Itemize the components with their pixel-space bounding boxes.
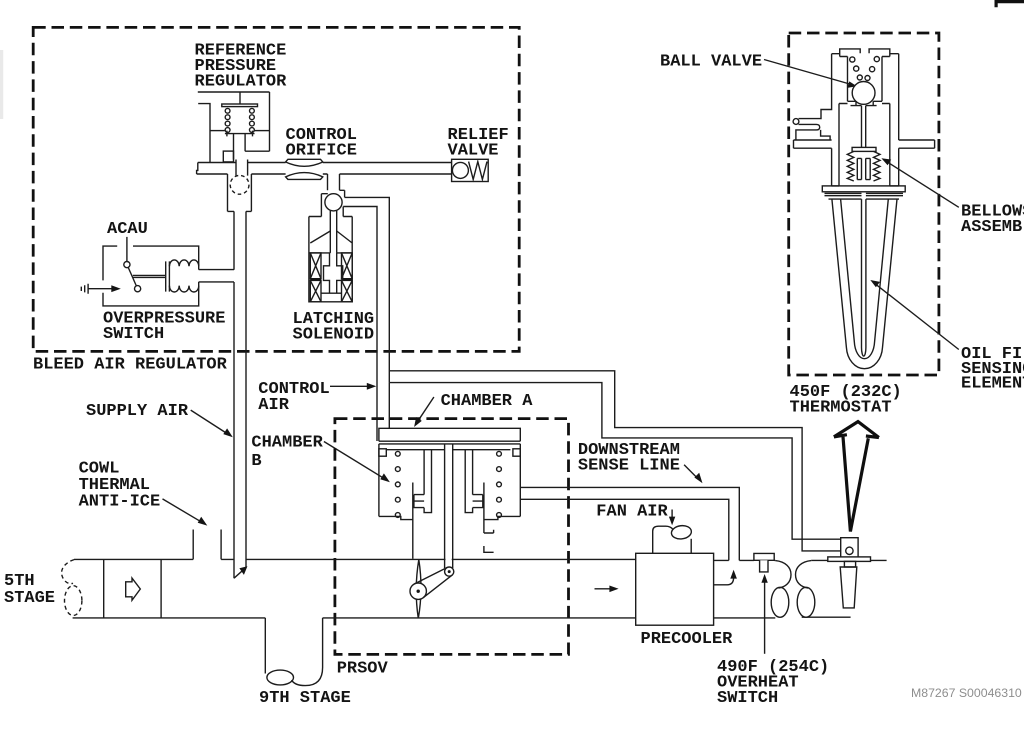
supply tube flow arrowhead <box>239 566 247 575</box>
right chamber bottom with step <box>484 516 520 519</box>
9th stage branch right wall with curve <box>292 618 323 686</box>
duct flow arrow before precooler <box>595 588 612 590</box>
nub lower lip <box>796 124 820 140</box>
supply air arrowhead <box>223 428 233 437</box>
pipe left end cap <box>197 163 198 175</box>
bellows left zigzag <box>847 151 854 181</box>
svg-text:ASSEMBLY: ASSEMBLY <box>961 218 1024 237</box>
overheat switch stem <box>760 560 768 572</box>
supply air leader <box>191 410 227 433</box>
chamber B top-left notch <box>379 449 386 456</box>
control air leader wire <box>330 385 369 387</box>
solenoid cup right wall lower <box>342 207 344 217</box>
solenoid plunger bottom bar <box>321 292 342 294</box>
chamber interior top line right <box>453 449 511 451</box>
duct bottom line end segment <box>802 616 851 618</box>
regulator narrow stem through pipe <box>236 160 248 176</box>
collar main bar <box>822 186 905 192</box>
wire: downstream sense line upper <box>520 487 739 560</box>
9th stage flex ellipse <box>267 670 294 685</box>
solenoid plunger cross outline <box>324 253 343 293</box>
flapper link small pivot <box>445 567 454 576</box>
upper bellows scallops <box>169 260 198 266</box>
ball bearings dots <box>850 57 880 81</box>
bellows plate double line <box>166 261 170 291</box>
left actuator rod <box>412 483 414 559</box>
housing bottom ties <box>832 185 899 187</box>
right poppet retainer bracket <box>473 495 483 508</box>
duct station vertical left <box>103 559 105 618</box>
anti-ice leader <box>163 499 201 522</box>
relief valve spring zigzag <box>469 162 487 180</box>
oil element arrowhead <box>870 280 880 287</box>
regulator body left wall <box>198 104 210 163</box>
flapper blade in duct <box>416 560 421 619</box>
switch pivot circle <box>124 262 130 268</box>
sense line leader <box>684 465 697 478</box>
svg-text:ELEMENT: ELEMENT <box>961 374 1024 393</box>
precooler box <box>636 553 714 625</box>
center rod double line <box>862 199 866 347</box>
svg-text:SWITCH: SWITCH <box>717 689 778 708</box>
svg-text:STAGE: STAGE <box>4 589 55 608</box>
main duct bottom line <box>73 617 636 619</box>
9th stage branch left wall <box>264 618 266 674</box>
solenoid coil X-box upper right <box>342 253 353 279</box>
anti-ice branch stubs <box>193 530 221 560</box>
thermostat mount circle <box>846 547 853 554</box>
solenoid ball cup shoulders <box>321 190 344 216</box>
flex joint 2 lower lobe <box>797 587 815 617</box>
chamber interior top line left <box>386 449 444 451</box>
center rod bottom cap <box>862 348 866 357</box>
valve seat dashed circle <box>230 175 249 194</box>
control orifice upper plate <box>286 159 323 166</box>
housing top edges <box>832 53 899 55</box>
flow block arrow <box>126 578 141 600</box>
sensing loop outer <box>832 199 897 369</box>
svg-text:BALL VALVE: BALL VALVE <box>660 53 762 72</box>
collar thin plates <box>825 193 904 199</box>
solenoid coil separator bar right <box>342 278 353 280</box>
regulator valve body around seat <box>228 174 252 211</box>
thermostat probe cone <box>840 567 857 608</box>
flex joint 2 upper S lobe <box>796 561 812 588</box>
sensing loop inner <box>841 199 889 359</box>
wire: pipe upper line to relief valve <box>198 162 452 164</box>
thermostat ball <box>852 82 875 105</box>
fan stack ellipse <box>671 525 692 541</box>
chamber B bottom with step <box>379 516 413 519</box>
overheat switch T body <box>754 553 774 560</box>
svg-text:THERMOSTAT: THERMOSTAT <box>790 399 892 418</box>
solenoid housing walls and bottom <box>309 217 352 302</box>
bellows inner guides <box>857 158 870 179</box>
svg-text:SUPPLY AIR: SUPPLY AIR <box>86 402 189 421</box>
right rod with keeper hooks <box>484 483 494 553</box>
supply air tube left wall (gap at switch tap) <box>233 211 235 578</box>
bellows leader arrowhead <box>881 158 891 165</box>
anti-ice arrowhead <box>198 517 208 526</box>
regulator spring seat bar with end hooks <box>225 131 255 137</box>
chamber A housing bottom and steps <box>379 383 520 442</box>
solenoid platform line <box>309 252 352 254</box>
ball valve leader arrowhead <box>847 81 857 88</box>
chamber B left wall <box>378 444 380 517</box>
fan air stack on precooler <box>653 526 673 553</box>
right poppet guide U-channel <box>465 450 472 513</box>
regulator body right wall <box>245 92 269 151</box>
regulator right spring coil <box>250 108 255 132</box>
left poppet retainer bracket <box>414 495 424 508</box>
duct station vertical right <box>160 559 162 618</box>
flex joint 1 upper S lobe <box>775 561 791 588</box>
wire: solenoid upper control line to chamber A <box>345 197 390 382</box>
walls below arms <box>832 148 899 186</box>
ground symbol <box>81 284 88 294</box>
ground arrowhead <box>111 285 121 292</box>
right flange arm double line <box>899 140 935 148</box>
svg-text:B: B <box>251 452 261 471</box>
svg-text:REGULATOR: REGULATOR <box>195 73 288 92</box>
supply air tube right wall <box>245 211 247 567</box>
right chamber spring circles <box>497 451 502 517</box>
scan artifact grey strip left edge <box>0 50 3 119</box>
latching solenoid L1: inlet channel above ball <box>328 174 340 190</box>
top cap with slot <box>840 49 890 57</box>
thermostat probe collar <box>844 561 855 567</box>
left poppet guide U-channel <box>424 450 431 513</box>
link tangent edges <box>415 568 453 598</box>
ground wire into switch <box>88 288 112 290</box>
svg-text:VALVE: VALVE <box>448 142 499 161</box>
solenoid coil X-box upper left <box>310 253 321 279</box>
relief valve ball circle <box>452 162 468 178</box>
svg-text:SWITCH: SWITCH <box>103 325 164 344</box>
regulator body right shelf <box>255 130 270 132</box>
inner wall top ties <box>839 103 890 105</box>
bellows top plate <box>852 147 876 151</box>
svg-text:FAN AIR: FAN AIR <box>596 503 668 522</box>
thermostat mount flange <box>828 557 871 562</box>
dashed enclosure: BLEED AIR REGULATOR <box>33 27 519 351</box>
center rod channel into duct <box>445 444 453 568</box>
duct inlet dashed flex end <box>62 560 74 584</box>
svg-text:AIR: AIR <box>258 396 289 415</box>
oil element leader <box>876 284 959 349</box>
thermostat outer right wall <box>898 54 900 140</box>
thermostat mount block <box>841 538 858 558</box>
link pivot dots <box>417 590 420 593</box>
svg-text:SENSE LINE: SENSE LINE <box>578 457 680 476</box>
chamber B spring circles <box>395 451 400 517</box>
switch contact bar double line <box>133 275 166 277</box>
thermostat stem double line <box>862 106 866 148</box>
solenoid ball <box>325 194 342 211</box>
switch lower contact circle <box>135 286 141 292</box>
flapper link big pivot <box>410 583 426 599</box>
solenoid coil separator bar left <box>310 278 321 280</box>
big pointer arrow shaft <box>843 437 868 532</box>
regulator drain side box <box>223 151 233 162</box>
ACAU wire down to switch pivot <box>126 237 128 262</box>
fan stack right wall <box>690 539 692 554</box>
regulator piston walls <box>234 134 246 160</box>
precooler bleed arrow into sense channel <box>714 578 734 585</box>
control air arrowhead <box>367 383 377 390</box>
regulator stem from cover to plate <box>239 92 241 104</box>
nub step back to wall <box>821 130 831 140</box>
solenoid coil X-box lower right <box>342 280 353 301</box>
sense line arrowhead <box>694 473 702 484</box>
ball valve leader <box>764 60 850 85</box>
solenoid housing top edges <box>309 216 352 218</box>
nub end loop <box>793 119 799 125</box>
overpressure switch S1 box <box>103 246 199 306</box>
ball seat steps <box>848 101 883 105</box>
wire: chamber A top line to thermostat <box>389 383 840 540</box>
svg-text:BLEED AIR REGULATOR: BLEED AIR REGULATOR <box>33 356 228 375</box>
bellows right zigzag <box>874 151 881 181</box>
svg-text:SOLENOID: SOLENOID <box>293 326 375 345</box>
regulator left spring coil <box>225 108 230 132</box>
regulator body left shelf <box>210 130 225 132</box>
solenoid stem double line <box>330 211 336 253</box>
cavity top edges <box>840 56 890 58</box>
solenoid funnel diagonals <box>310 231 352 243</box>
page border corner fragment top right <box>995 0 1024 7</box>
svg-text:PRECOOLER: PRECOOLER <box>641 630 734 649</box>
regulator spring plate <box>222 104 258 107</box>
wire: solenoid lower control line down <box>343 207 377 442</box>
chamber A leader <box>418 397 434 421</box>
right chamber top-right notch <box>513 449 520 456</box>
flex joint 1 lower lobe <box>771 587 789 617</box>
svg-text:ANTI-ICE: ANTI-ICE <box>79 493 161 512</box>
overheat pointer arrow <box>764 582 766 654</box>
PRSOV actuator plate double line <box>379 441 520 444</box>
lower bellows scallops <box>169 286 198 292</box>
solenoid coil X-box lower left <box>310 280 321 301</box>
wire: downstream sense line lower <box>520 499 729 560</box>
control orifice lower plate <box>286 173 323 180</box>
bellows leader <box>887 162 959 208</box>
wire: control air branch to right <box>389 371 840 551</box>
supply tube bevel tip <box>234 568 246 579</box>
thermostat detail: outer left wall and nub profile <box>799 54 832 119</box>
svg-text:CHAMBER: CHAMBER <box>251 434 323 453</box>
right chamber wall <box>519 444 521 517</box>
svg-text:ACAU: ACAU <box>107 220 148 239</box>
dashed enclosure: PRSOV <box>335 419 569 655</box>
svg-text:ORIFICE: ORIFICE <box>286 142 357 161</box>
duct bottom line right of precooler <box>714 617 776 619</box>
regulator U1: top cover line <box>198 91 270 93</box>
switch lever <box>128 267 136 286</box>
chamber B leader <box>324 442 384 479</box>
dashed enclosure: thermostat detail <box>789 33 939 375</box>
duct top line right of precooler <box>714 559 776 561</box>
inner cavity walls <box>848 57 883 102</box>
left flange arm double line <box>794 140 832 148</box>
svg-text:CHAMBER A: CHAMBER A <box>441 392 534 411</box>
wire: switch to supply tube lower <box>199 281 234 283</box>
svg-text:PRSOV: PRSOV <box>337 660 389 679</box>
svg-text:M87267 S00046310: M87267 S00046310 <box>911 686 1022 700</box>
inner housing walls <box>839 104 890 186</box>
wire: pipe lower line to relief valve <box>197 173 452 175</box>
big pointer arrow head <box>834 422 879 438</box>
relief valve V1 body <box>452 159 489 181</box>
chamber A arrowhead <box>414 417 422 427</box>
duct top line at thermostat <box>811 559 886 561</box>
svg-text:9TH STAGE: 9TH STAGE <box>259 689 351 708</box>
main duct top line <box>74 558 636 560</box>
wire: switch to supply tube upper <box>199 269 234 271</box>
fan air pointer <box>671 510 673 519</box>
chamber B arrowhead <box>380 473 390 482</box>
